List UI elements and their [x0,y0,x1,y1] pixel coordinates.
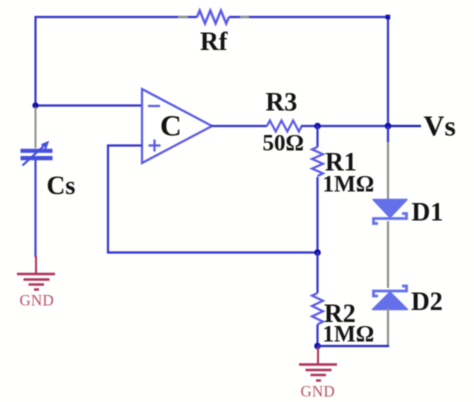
node D junction dot [314,343,321,350]
svg-text:1MΩ: 1MΩ [323,322,375,347]
svg-text:Cs: Cs [47,171,76,200]
wire top feedback from Rf right to right rail [229,16,388,18]
pin stub gray Rf right [240,16,249,18]
wire capacitor bottom lead to GND [34,160,36,257]
wire non-inverting feedback loop [108,146,318,253]
ground GND right [299,347,337,381]
node B junction dot [314,123,321,130]
capacitor Cs (variable) [21,143,53,166]
svg-text:50Ω: 50Ω [263,131,304,156]
wire R3 to node B [301,125,318,127]
resistor R3 [267,121,302,132]
pin stub gray diode chain upper [387,140,389,199]
wire node B to R1 [316,126,318,147]
svg-text:GND: GND [301,384,335,401]
svg-text:D1: D1 [412,198,444,227]
op-amp plus sign [149,140,161,152]
pin stub gray Rf left [178,16,188,18]
svg-text:R3: R3 [266,88,298,117]
wire output stub to Vs label [388,125,421,127]
resistor Rf [197,11,229,24]
op-amp minus sign [148,105,160,107]
svg-text:1MΩ: 1MΩ [323,172,375,197]
svg-text:Vs: Vs [424,111,456,143]
wire node B to node Vs [318,125,389,127]
wire right rail top [387,17,389,126]
wire inverting input (node A to op-amp minus) [36,104,143,106]
wire top feedback from node A to Rf left [36,17,198,106]
svg-text:C: C [160,110,182,143]
wire R1 to node C junction [316,177,318,253]
zener diode D1 [373,200,407,224]
pin stub gray capacitor top lead [35,107,37,148]
op-amp U (C) [142,89,212,163]
node Vs junction dot [385,123,392,130]
svg-text:Rf: Rf [200,27,228,56]
resistor R2 [312,293,323,324]
ground GND left [17,256,55,290]
pin stub gray R2 top lead [317,274,319,283]
pin stub gray between D1 and D2 [387,221,389,288]
svg-text:D2: D2 [411,287,443,316]
pin stub gray below D2 [387,308,389,345]
resistor R1 [312,147,323,176]
node A junction dot [32,102,38,108]
wire op-amp output to R3 [211,125,267,127]
wire R2 to node D junction [316,325,318,347]
junction corner top-right [386,15,391,20]
node C junction dot [314,249,321,256]
wire Vs node into diode chain [387,126,389,142]
zener diode D2 [373,286,408,310]
wire diode chain bottom to node D [318,345,389,346]
svg-text:GND: GND [20,293,54,310]
wire node C to R2 [316,253,318,294]
